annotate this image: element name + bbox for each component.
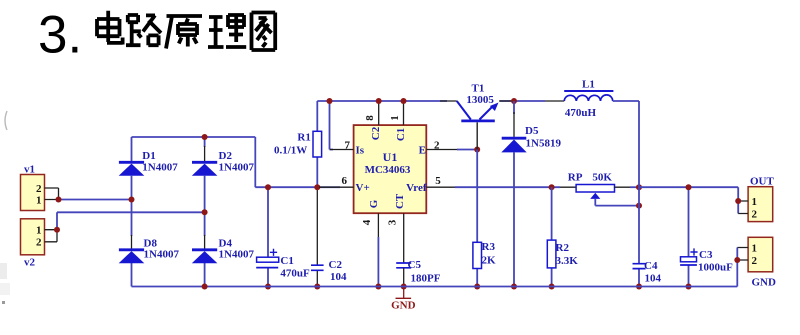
- svg-text:3.: 3.: [38, 6, 82, 65]
- node R2 top: [549, 184, 555, 190]
- node emitter: [511, 98, 517, 104]
- node C4 ground: [636, 284, 642, 290]
- node C1 bottom: [265, 284, 271, 290]
- hanzi yuan: [166, 16, 202, 49]
- svg-text:1: 1: [752, 196, 758, 208]
- svg-text:Is: Is: [356, 144, 365, 156]
- pin 4: [361, 213, 378, 237]
- svg-text:3.3K: 3.3K: [556, 255, 579, 267]
- diode D1: [119, 150, 179, 176]
- svg-text:C4: C4: [644, 260, 658, 272]
- node v2 junction: [54, 227, 60, 233]
- svg-text:C2: C2: [370, 126, 382, 140]
- resistor R3: [473, 150, 496, 287]
- node C3 top: [686, 184, 692, 190]
- node rail pin7: [327, 98, 333, 104]
- ground GND net label: [391, 289, 416, 312]
- pin 1: [389, 101, 404, 125]
- node pin3 ground: [401, 284, 407, 290]
- hanzi li: [208, 15, 246, 47]
- svg-text:1N4007: 1N4007: [219, 249, 255, 261]
- svg-text:D2: D2: [219, 150, 233, 162]
- node D5 ground: [511, 284, 517, 290]
- svg-text:v1: v1: [24, 164, 35, 176]
- svg-text:104: 104: [330, 271, 347, 283]
- wire RP wiper: [595, 199, 639, 206]
- node D4 ground: [202, 284, 208, 290]
- svg-text:1N5819: 1N5819: [526, 138, 562, 150]
- node GND pin2: [734, 257, 740, 263]
- node wiper feedback: [636, 203, 642, 209]
- svg-text:2: 2: [36, 183, 42, 195]
- hanzi tu: [252, 13, 276, 51]
- hanzi lu: [126, 15, 161, 45]
- svg-text:GND: GND: [391, 300, 416, 312]
- svg-text:G: G: [368, 199, 380, 208]
- svg-text:2: 2: [36, 237, 42, 249]
- svg-text:D1: D1: [142, 150, 155, 162]
- node rail pin8: [376, 98, 382, 104]
- resistor R1: [274, 101, 322, 187]
- node R1 C2: [314, 184, 320, 190]
- wire ground rail: [132, 286, 738, 288]
- svg-text:C1: C1: [280, 255, 293, 267]
- node OUT pin1: [735, 198, 741, 204]
- svg-text:Vref: Vref: [406, 182, 427, 194]
- wire mid rail to out: [639, 187, 738, 213]
- svg-text:2: 2: [434, 139, 440, 151]
- capacitor C3: [680, 187, 733, 286]
- IC U1 MC34063: [354, 125, 427, 213]
- svg-text:1: 1: [752, 243, 758, 255]
- svg-text:4: 4: [361, 219, 373, 225]
- svg-text:104: 104: [645, 273, 662, 285]
- pin 6: [319, 175, 354, 187]
- wire GND riser: [736, 248, 738, 287]
- svg-text:T1: T1: [472, 83, 485, 95]
- diode D4: [192, 237, 255, 263]
- node v1 junction: [56, 197, 62, 203]
- node pin4 ground: [375, 284, 381, 290]
- svg-text:6: 6: [342, 175, 348, 187]
- node R2 ground: [549, 284, 555, 290]
- wire pin5 to RP: [455, 186, 576, 188]
- inductor L1: [545, 79, 613, 120]
- hanzi dian: [97, 11, 123, 45]
- potentiometer RP: [568, 172, 615, 199]
- svg-text:U1: U1: [383, 150, 398, 164]
- node base R3: [474, 147, 480, 153]
- connector v2: [21, 219, 45, 269]
- node C2 bottom: [314, 284, 320, 290]
- wire pin7 feed: [330, 101, 334, 150]
- svg-text:E: E: [419, 144, 426, 156]
- GND pin stubs: [737, 248, 748, 261]
- svg-text:470uH: 470uH: [565, 107, 597, 119]
- wire D1 column: [131, 137, 133, 287]
- svg-text:2K: 2K: [482, 255, 497, 267]
- diode D2: [192, 150, 255, 176]
- wire bridge top rail: [132, 137, 341, 187]
- svg-text:CT: CT: [394, 193, 406, 209]
- connector v1: [21, 164, 45, 211]
- v2 pin stubs: [45, 230, 58, 242]
- svg-text:R1: R1: [297, 132, 310, 144]
- svg-text:1N4007: 1N4007: [144, 249, 180, 261]
- pin 5: [426, 175, 456, 187]
- svg-text:50K: 50K: [592, 172, 612, 184]
- pin 2: [426, 139, 458, 151]
- svg-text:1: 1: [389, 115, 401, 121]
- svg-text:1: 1: [36, 195, 42, 207]
- svg-text:v2: v2: [24, 257, 36, 269]
- v1 pin stubs: [45, 188, 59, 200]
- title "3. 电路原理图": [38, 6, 275, 65]
- wire RP right: [615, 186, 640, 188]
- node rail pin1: [401, 98, 407, 104]
- resistor R2: [547, 187, 578, 286]
- wire pin4 ground: [377, 237, 379, 287]
- wire top rail: [317, 100, 545, 102]
- svg-text:3: 3: [387, 219, 399, 225]
- svg-text:R3: R3: [482, 241, 496, 253]
- svg-text:R2: R2: [556, 242, 570, 254]
- svg-text:2: 2: [752, 255, 758, 267]
- wire D2 column: [204, 137, 206, 287]
- connector GND: [748, 237, 776, 288]
- svg-text:2: 2: [752, 209, 758, 221]
- diode D8: [119, 237, 180, 263]
- svg-text:5: 5: [435, 175, 441, 187]
- svg-text:180PF: 180PF: [411, 273, 441, 285]
- svg-text:1: 1: [36, 225, 42, 237]
- pin 8: [364, 101, 379, 125]
- svg-text:470uF: 470uF: [280, 268, 310, 280]
- svg-text:8: 8: [364, 115, 376, 121]
- scan artifact bottom left: [0, 263, 10, 304]
- diode D5: [501, 101, 561, 287]
- wire v1 to bridge: [59, 199, 132, 201]
- svg-text:0.1/1W: 0.1/1W: [274, 145, 307, 157]
- pin 7: [330, 139, 354, 151]
- svg-text:V+: V+: [356, 182, 370, 194]
- node out mid: [636, 184, 642, 190]
- svg-text:C3: C3: [699, 249, 713, 261]
- node R3 ground: [474, 284, 480, 290]
- svg-text:D5: D5: [525, 125, 539, 137]
- svg-text:MC34063: MC34063: [365, 164, 411, 176]
- capacitor C5: [396, 259, 441, 287]
- node C3 ground: [686, 284, 692, 290]
- svg-text:L1: L1: [582, 79, 595, 91]
- capacitor C2: [311, 187, 347, 286]
- node D2 anode v2: [202, 209, 208, 215]
- scan artifact left edge: [5, 111, 7, 130]
- pin 3: [387, 213, 404, 263]
- svg-text:D4: D4: [219, 237, 233, 249]
- capacitor C1: [256, 187, 310, 286]
- node D1 anode v1: [129, 197, 135, 203]
- svg-text:7: 7: [345, 139, 351, 151]
- svg-text:1000uF: 1000uF: [698, 262, 733, 274]
- wire pin2 to base node: [457, 149, 477, 151]
- transistor T1: [440, 83, 512, 150]
- capacitor C4: [633, 260, 662, 285]
- connector OUT: [748, 176, 774, 222]
- wire v2 to bridge: [57, 212, 205, 229]
- svg-text:GND: GND: [752, 277, 777, 289]
- svg-text:C1: C1: [395, 128, 407, 141]
- node C1 top: [265, 184, 271, 190]
- node bridge top D2: [202, 134, 208, 140]
- svg-text:1N4007: 1N4007: [142, 161, 178, 173]
- svg-text:C2: C2: [329, 259, 343, 271]
- svg-text:RP: RP: [568, 172, 583, 184]
- svg-text:13005: 13005: [466, 94, 494, 106]
- OUT pin stubs: [738, 201, 748, 214]
- svg-text:C5: C5: [408, 259, 422, 271]
- svg-text:D8: D8: [144, 237, 158, 249]
- svg-text:OUT: OUT: [750, 176, 775, 188]
- wire L1 to right rail: [613, 101, 639, 287]
- svg-text:1N4007: 1N4007: [219, 161, 255, 173]
